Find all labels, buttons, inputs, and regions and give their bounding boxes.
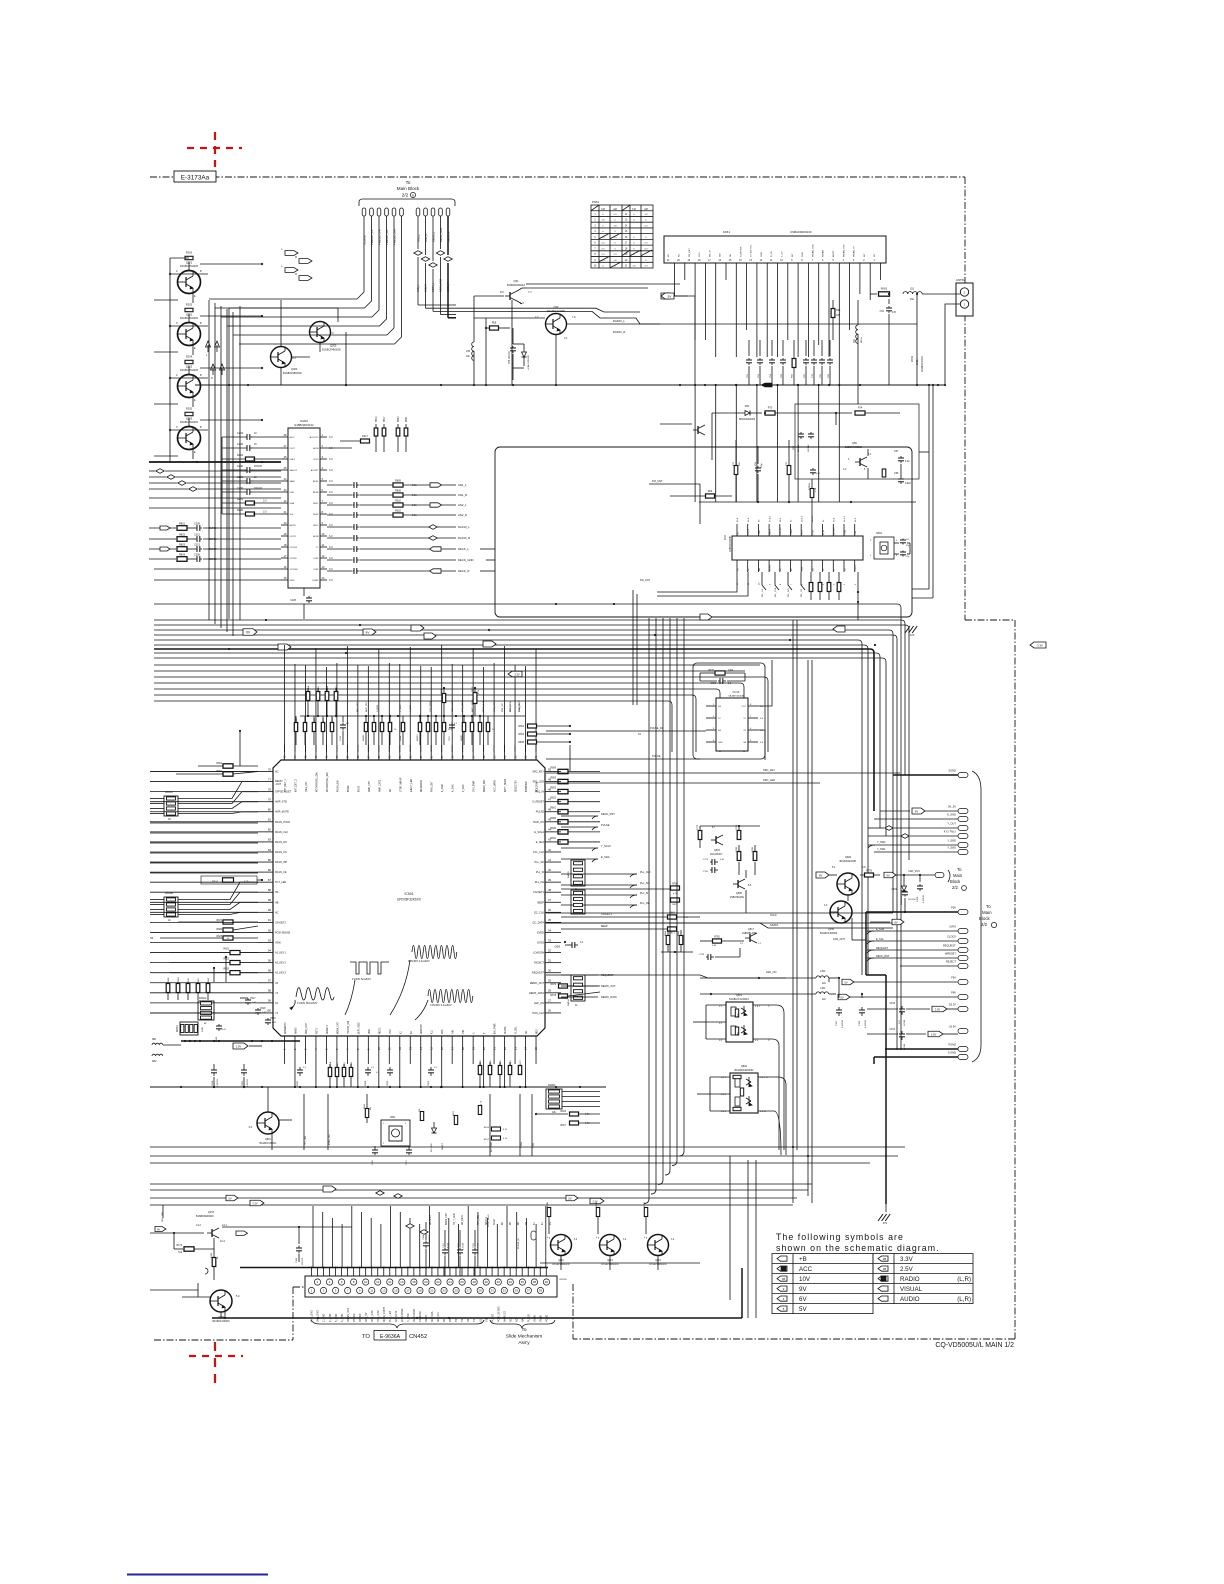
svg-text:36: 36 bbox=[521, 1280, 525, 1284]
svg-text:X4b: X4b bbox=[453, 1029, 455, 1034]
svg-text:R803: R803 bbox=[179, 543, 186, 546]
svg-text:DET5_4.7k: DET5_4.7k bbox=[483, 700, 485, 712]
svg-text:NC: NC bbox=[864, 253, 866, 257]
svg-text:78: 78 bbox=[268, 787, 272, 791]
svg-text:FRQ_CNT: FRQ_CNT bbox=[306, 1023, 308, 1034]
wire vertical bundle to CN452 bbox=[312, 1206, 314, 1268]
svg-text:AMP_STB: AMP_STB bbox=[275, 801, 287, 804]
CN452 pin 2 bbox=[314, 1279, 320, 1285]
wire sgnd bbox=[893, 774, 958, 776]
wires an2/deck group bbox=[417, 216, 419, 249]
svg-text:OUTLR: OUTLR bbox=[290, 547, 298, 549]
svg-text:3.3: 3.3 bbox=[263, 500, 267, 503]
connector pin bbox=[439, 208, 443, 216]
wire signal row bbox=[327, 548, 352, 550]
svg-text:PLL_CLK: PLL_CLK bbox=[533, 851, 544, 854]
capacitor C148 bbox=[425, 1241, 427, 1244]
IC202 pin 14 bbox=[320, 579, 327, 581]
capacitor C157 bbox=[838, 978, 840, 998]
svg-text:DO: DO bbox=[812, 568, 814, 571]
IC501 pin 30 REQUEST bbox=[545, 972, 561, 974]
svg-text:To: To bbox=[957, 867, 962, 872]
IC501 pin 76 NC bbox=[258, 771, 273, 773]
svg-text:3.3: 3.3 bbox=[263, 511, 267, 514]
svg-text:C517: C517 bbox=[250, 998, 256, 1000]
capacitor bbox=[353, 548, 355, 550]
svg-text:81: 81 bbox=[268, 818, 272, 822]
svg-text:CQ-VD5005U/L MAIN 1/2: CQ-VD5005U/L MAIN 1/2 bbox=[935, 1342, 1014, 1349]
resistor R69 bbox=[706, 494, 715, 498]
capacitor C159 bbox=[904, 911, 906, 913]
svg-text:R50B: R50B bbox=[327, 685, 329, 691]
capacitor C805 bbox=[389, 1067, 391, 1070]
svg-text:9.1k: 9.1k bbox=[412, 494, 417, 497]
svg-text:R853: R853 bbox=[551, 778, 557, 780]
IC51 pin top 16 bbox=[768, 524, 770, 536]
svg-text:FM_IF: FM_IF bbox=[748, 528, 750, 535]
IC710 pin left 1 bbox=[706, 705, 716, 707]
svg-text:16V100: 16V100 bbox=[254, 488, 263, 490]
svg-text:SDA: SDA bbox=[290, 502, 295, 505]
svg-text:SE1R: SE1R bbox=[313, 536, 319, 538]
svg-text:C: C bbox=[176, 270, 178, 273]
svg-text:8V: 8V bbox=[366, 630, 370, 634]
svg-text:R679: R679 bbox=[551, 984, 557, 986]
IC202 pin 23 bbox=[281, 491, 288, 493]
IC501 pin 18 bbox=[462, 1036, 464, 1052]
svg-text:RES: RES bbox=[537, 1029, 539, 1034]
svg-text:R86B: R86B bbox=[351, 1061, 353, 1067]
svg-text:13: 13 bbox=[382, 1289, 386, 1293]
svg-text:PULSE: PULSE bbox=[527, 1313, 530, 1322]
svg-text:VDD: VDD bbox=[759, 530, 761, 535]
svg-text:RA812: RA812 bbox=[199, 997, 207, 1000]
wire deck rows into block bbox=[480, 548, 495, 550]
svg-text:DHD: DHD bbox=[916, 359, 919, 365]
arrow tag D-3V bbox=[233, 1043, 248, 1049]
svg-text:L152: L152 bbox=[820, 970, 826, 973]
svg-text:3B: 3B bbox=[782, 1277, 786, 1281]
svg-text:83: 83 bbox=[268, 838, 272, 842]
svg-text:R809: R809 bbox=[395, 490, 401, 493]
registration cross bottom bbox=[189, 1342, 243, 1385]
connector stub PGND bbox=[958, 1047, 968, 1052]
svg-text:HOLDSW: HOLDSW bbox=[537, 781, 539, 792]
resistor R878 4.7k bbox=[478, 1106, 481, 1115]
svg-text:C801: C801 bbox=[242, 1080, 244, 1086]
IC51 pin top 21 bbox=[822, 524, 824, 536]
svg-text:5V: 5V bbox=[844, 980, 847, 984]
resistors R631 R632 R633 bbox=[230, 951, 240, 955]
wire bbox=[170, 325, 208, 327]
IC501 pin 16 bbox=[441, 1036, 443, 1052]
svg-text:470: 470 bbox=[738, 1014, 740, 1017]
svg-text:NC: NC bbox=[874, 253, 876, 257]
transistor Q55 small bbox=[693, 429, 698, 431]
svg-text:DECK_RST: DECK_RST bbox=[876, 955, 890, 958]
resistor R625 bbox=[223, 936, 233, 940]
capacitor C518 bbox=[257, 1008, 259, 1010]
svg-text:AN2_R: AN2_R bbox=[458, 513, 467, 517]
connector stub U2.5V bbox=[958, 1029, 968, 1034]
svg-text:PUSH_SW: PUSH_SW bbox=[337, 780, 339, 792]
capacitor C313 bbox=[187, 548, 196, 550]
svg-text:35: 35 bbox=[515, 1289, 519, 1293]
svg-text:C66: C66 bbox=[894, 472, 899, 475]
svg-text:9V: 9V bbox=[157, 1228, 160, 1231]
svg-text:Y_SW2: Y_SW2 bbox=[877, 841, 886, 844]
svg-text:41: 41 bbox=[548, 858, 552, 862]
svg-text:C57: C57 bbox=[894, 450, 899, 453]
IC202 pin 22 bbox=[281, 502, 288, 504]
svg-text:SE1L: SE1L bbox=[313, 525, 319, 527]
IC202 pin 5 bbox=[320, 480, 327, 482]
svg-text:9V: 9V bbox=[886, 873, 889, 877]
svg-text:86: 86 bbox=[268, 868, 272, 872]
svg-text:NC: NC bbox=[526, 1030, 528, 1034]
capacitor C8x bbox=[902, 539, 904, 541]
vertical column wires above IC501 bbox=[284, 645, 286, 752]
connector stub CLOCK bbox=[958, 939, 968, 944]
svg-text:UPD78F32K6XX: UPD78F32K6XX bbox=[397, 898, 422, 902]
schematic border top dash-dot bbox=[150, 176, 965, 178]
svg-text:Q56: Q56 bbox=[852, 442, 857, 445]
svg-text:94: 94 bbox=[268, 948, 272, 952]
capacitor C750 bbox=[710, 869, 712, 871]
svg-text:A_IN: A_IN bbox=[822, 529, 825, 534]
IC501 pin 98 Y3 bbox=[258, 992, 273, 994]
svg-text:21: 21 bbox=[430, 1289, 434, 1293]
resistor R75 bbox=[810, 489, 814, 498]
svg-text:GN2: GN2 bbox=[718, 742, 723, 744]
svg-text:2SB6760AML: 2SB6760AML bbox=[730, 896, 745, 899]
svg-text:Y-: Y- bbox=[768, 1006, 770, 1008]
svg-text:C312: C312 bbox=[194, 534, 200, 537]
svg-text:E_SDA: E_SDA bbox=[536, 841, 545, 844]
svg-text:32: 32 bbox=[497, 1280, 501, 1284]
arrow small bbox=[236, 1231, 248, 1235]
resistor R206 bbox=[185, 412, 193, 415]
resistor R781 bbox=[753, 852, 757, 861]
svg-text:R50P: R50P bbox=[305, 717, 307, 723]
resistor R977 bbox=[518, 1066, 521, 1075]
IC501 pin 27 LED_ON bbox=[545, 1002, 561, 1004]
svg-text:REJECT: REJECT bbox=[534, 962, 544, 965]
svg-text:PLL_CLK: PLL_CLK bbox=[775, 587, 777, 597]
IC501 pin 5 bbox=[325, 1036, 327, 1052]
wire signal row bbox=[327, 570, 352, 572]
svg-text:DIFF: DIFF bbox=[314, 558, 320, 560]
svg-text:R780: R780 bbox=[736, 846, 738, 852]
svg-text:16: 16 bbox=[400, 1280, 404, 1284]
svg-text:98: 98 bbox=[268, 989, 272, 993]
ground under legend bbox=[878, 1214, 883, 1221]
CN452 pin 17 bbox=[405, 1287, 411, 1293]
resistor R776 bbox=[737, 831, 741, 840]
IC501 pin 25 bbox=[535, 1036, 537, 1052]
svg-text:NC: NC bbox=[275, 771, 279, 774]
svg-text:Ass'y: Ass'y bbox=[518, 1340, 530, 1346]
IC51 pin bottom 1 bbox=[854, 560, 856, 572]
connector pin bbox=[362, 208, 366, 216]
svg-text:3B: 3B bbox=[883, 1257, 887, 1261]
wire ic710 out bbox=[758, 660, 772, 706]
resistor R508 bbox=[401, 723, 404, 732]
resistor R230 bbox=[222, 513, 245, 515]
IC501 pin 83 FRAN_DO bbox=[258, 841, 273, 843]
inductor L52 bbox=[856, 325, 858, 343]
svg-text:6V: 6V bbox=[799, 1296, 807, 1303]
svg-text:100k: 100k bbox=[728, 669, 734, 672]
arrow tag 9V radio bbox=[661, 293, 674, 299]
transistor Q155 bbox=[830, 901, 852, 923]
svg-text:K_GND: K_GND bbox=[947, 813, 956, 817]
CN452 pin 22 bbox=[435, 1279, 441, 1285]
svg-text:SELECT5V: SELECT5V bbox=[516, 780, 518, 792]
svg-text:R74: R74 bbox=[858, 407, 863, 410]
svg-text:AN1_R: AN1_R bbox=[458, 493, 467, 497]
svg-text:RA507: RA507 bbox=[460, 734, 463, 741]
svg-text:DECK_GND: DECK_GND bbox=[440, 278, 443, 292]
resistor R775 bbox=[698, 831, 702, 840]
svg-text:R180: R180 bbox=[211, 1252, 213, 1258]
svg-text:(L,R): (L,R) bbox=[957, 1276, 971, 1283]
svg-text:SCLK: SCLK bbox=[770, 913, 777, 917]
resistor R70 bbox=[787, 466, 791, 475]
svg-text:LED_ON: LED_ON bbox=[534, 1002, 544, 1005]
svg-text:C51: C51 bbox=[880, 310, 885, 313]
svg-text:To: To bbox=[406, 180, 411, 185]
svg-text:INIT_DET_1: INIT_DET_1 bbox=[285, 779, 287, 792]
connector CN452 box bbox=[305, 1276, 557, 1297]
svg-text:B1GB1CFJLN0013: B1GB1CFJLN0013 bbox=[729, 999, 749, 1001]
CN452 pin 10 bbox=[363, 1279, 369, 1285]
svg-text:38: 38 bbox=[533, 1280, 537, 1284]
svg-text:C56 16V100: C56 16V100 bbox=[509, 351, 511, 364]
CN452 pin 5 bbox=[333, 1287, 339, 1293]
svg-text:91: 91 bbox=[268, 918, 272, 922]
svg-text:H819: H819 bbox=[376, 416, 378, 422]
svg-text:PN51: PN51 bbox=[592, 200, 599, 204]
svg-text:33: 33 bbox=[503, 1289, 507, 1293]
svg-text:SDATA: SDATA bbox=[770, 923, 779, 927]
svg-text:Main: Main bbox=[982, 910, 992, 915]
IC501 pin 17 bbox=[451, 1036, 453, 1052]
svg-text:A73: A73 bbox=[910, 633, 915, 637]
svg-text:Q306: Q306 bbox=[845, 856, 852, 859]
svg-text:9V: 9V bbox=[915, 809, 919, 813]
wire bbox=[192, 397, 194, 407]
svg-text:R50G: R50G bbox=[336, 685, 338, 691]
IC501 pin 65 bbox=[388, 745, 390, 760]
IC710 pin right 8 bbox=[748, 705, 758, 707]
svg-text:9V: 9V bbox=[668, 294, 672, 298]
IC501 pin 89 HB bbox=[258, 901, 273, 903]
svg-text:Y4b: Y4b bbox=[463, 1029, 465, 1034]
wire signal row bbox=[327, 526, 352, 528]
IC202 pin 15 bbox=[281, 579, 288, 581]
svg-text:REGC: REGC bbox=[379, 1027, 381, 1034]
IC501 pin 47 D_RESET bbox=[545, 801, 561, 803]
IC501 pin 21 bbox=[493, 1036, 495, 1052]
svg-text:10-4: 10-4 bbox=[220, 1240, 225, 1243]
capacitor C64 bbox=[800, 432, 802, 434]
svg-text:VGA: VGA bbox=[843, 530, 846, 535]
svg-text:37: 37 bbox=[527, 1289, 531, 1293]
svg-text:3HP1/0: 3HP1/0 bbox=[359, 1313, 362, 1322]
wire bbox=[229, 307, 338, 309]
svg-text:REMO_OUT: REMO_OUT bbox=[530, 982, 545, 985]
ground A73 bbox=[857, 572, 859, 620]
svg-text:#74: #74 bbox=[883, 1222, 888, 1225]
svg-text:9.1k: 9.1k bbox=[412, 514, 417, 517]
wires preout group bbox=[209, 216, 364, 299]
wire bbox=[303, 604, 305, 619]
svg-text:Q801: Q801 bbox=[265, 1138, 272, 1141]
svg-text:35: 35 bbox=[548, 918, 552, 922]
svg-text:/OUT: /OUT bbox=[290, 448, 296, 450]
svg-text:PLL_CE: PLL_CE bbox=[535, 881, 545, 884]
svg-text:96: 96 bbox=[268, 969, 272, 973]
svg-text:ACC_SENS: ACC_SENS bbox=[461, 700, 464, 712]
IC501 pin 39 PLL_CE bbox=[545, 881, 561, 883]
capacitor bbox=[353, 570, 355, 572]
svg-text:B6A00A000005: B6A00A000005 bbox=[739, 418, 756, 421]
transistor Q517 bbox=[745, 937, 750, 939]
IC501 pin 34 EVDD bbox=[545, 931, 561, 933]
svg-text:0.22: 0.22 bbox=[905, 461, 910, 463]
IC501 pin 8 bbox=[357, 1036, 359, 1052]
svg-text:NC: NC bbox=[679, 253, 681, 257]
wire deck drop columns bbox=[632, 590, 634, 705]
svg-text:RADIO: RADIO bbox=[900, 1276, 920, 1283]
wire antenna pin1 bbox=[945, 304, 960, 385]
IC501 pin 54 bbox=[504, 745, 506, 760]
svg-text:100: 100 bbox=[266, 1009, 271, 1013]
wire bold left-bottom rail bbox=[181, 1040, 300, 1042]
svg-text:RA509: RA509 bbox=[362, 734, 365, 741]
IC51 pin top 22 bbox=[832, 524, 834, 536]
resistor R71 bbox=[734, 466, 738, 475]
IC51 pin top 13 bbox=[736, 524, 738, 536]
svg-text:24-2.5: 24-2.5 bbox=[844, 515, 846, 522]
svg-text:R680: R680 bbox=[217, 929, 223, 931]
svg-text:D51: D51 bbox=[745, 405, 750, 408]
CN452 pin 3 bbox=[320, 1287, 326, 1293]
svg-text:SYS_3.3V: SYS_3.3V bbox=[377, 1310, 380, 1322]
svg-text:29: 29 bbox=[548, 979, 552, 983]
svg-text:SB2: SB2 bbox=[152, 1061, 157, 1063]
arrow tag band B bbox=[1030, 642, 1046, 648]
svg-text:1K: 1K bbox=[168, 818, 171, 821]
svg-text:90: 90 bbox=[268, 908, 272, 912]
resistor array RA509 bbox=[364, 723, 367, 732]
connector bracket bbox=[359, 199, 455, 206]
CN452 pin 16 bbox=[399, 1279, 405, 1285]
svg-text:29: 29 bbox=[479, 1289, 483, 1293]
wire signal row bbox=[327, 504, 352, 506]
connector pin bbox=[385, 208, 389, 216]
IC51 pin top 24 bbox=[854, 524, 856, 536]
svg-text:ST_EG/TYC: ST_EG/TYC bbox=[751, 244, 753, 257]
IC202 pin 28 bbox=[281, 436, 288, 438]
svg-text:SYS_MUTE: SYS_MUTE bbox=[519, 700, 521, 712]
svg-text:A3_KEY3: A3_KEY3 bbox=[275, 972, 286, 975]
svg-text:R801: R801 bbox=[179, 522, 186, 525]
svg-text:0.9V/DIV 0.2us/DIV: 0.9V/DIV 0.2us/DIV bbox=[408, 960, 430, 963]
svg-text:MON2: MON2 bbox=[770, 564, 772, 571]
IC501 pin 80 AMP_MUTE bbox=[258, 811, 273, 813]
diode D807 bbox=[433, 1122, 435, 1128]
resistor R231 bbox=[222, 502, 245, 504]
svg-text:E_SOLA: E_SOLA bbox=[534, 831, 544, 834]
svg-text:AMP_CNT: AMP_CNT bbox=[365, 701, 368, 712]
capacitor C240 bbox=[222, 469, 245, 471]
capacitor bbox=[353, 526, 355, 528]
svg-text:R633: R633 bbox=[224, 969, 230, 971]
svg-text:Q515: Q515 bbox=[714, 849, 721, 852]
wire signal row bbox=[327, 537, 352, 539]
svg-text:POSI_SENS: POSI_SENS bbox=[488, 1214, 490, 1227]
svg-text:R66Z: R66Z bbox=[208, 977, 210, 983]
transistor Q505 bbox=[733, 883, 738, 885]
svg-text:NA: NA bbox=[521, 1318, 524, 1322]
svg-text:VDD: VDD bbox=[369, 1029, 371, 1034]
svg-text:C809: C809 bbox=[555, 947, 561, 949]
CN452 pin 25 bbox=[453, 1287, 459, 1293]
arrow tag 8V bbox=[675, 295, 689, 297]
connector stub REJECT bbox=[958, 964, 968, 969]
svg-text:R50T: R50T bbox=[323, 717, 325, 723]
resistors R670 R680 bbox=[223, 920, 233, 924]
svg-text:10V100: 10V100 bbox=[808, 444, 810, 452]
svg-text:28: 28 bbox=[548, 989, 552, 993]
svg-text:7.6: 7.6 bbox=[572, 316, 576, 319]
svg-text:3R: 3R bbox=[449, 1319, 452, 1322]
arrow tag D3.3V bbox=[932, 1006, 947, 1012]
svg-text:EVSS: EVSS bbox=[537, 942, 544, 945]
svg-text:3HP1/0: 3HP1/0 bbox=[353, 1313, 356, 1322]
svg-text:PRA_SCK: PRA_SCK bbox=[493, 701, 496, 712]
IC501 pin 45 MVR_OC bbox=[545, 821, 561, 823]
svg-text:3.3V: 3.3V bbox=[514, 672, 520, 676]
IC501 pin 61 bbox=[430, 745, 432, 760]
svg-text:NC: NC bbox=[509, 1318, 512, 1322]
svg-text:FA51: FA51 bbox=[723, 230, 730, 234]
svg-text:AMP_CNT: AMP_CNT bbox=[368, 780, 371, 792]
IC51 pin top 23 bbox=[843, 524, 845, 536]
connector pin bbox=[392, 208, 396, 216]
svg-text:KY1-TNLY: KY1-TNLY bbox=[944, 830, 956, 834]
svg-text:R232: R232 bbox=[237, 454, 244, 457]
resistor R780 bbox=[737, 852, 741, 861]
svg-text:5 8-7: 5 8-7 bbox=[755, 1006, 761, 1008]
svg-text:TOUCH_SW: TOUCH_SW bbox=[348, 1020, 350, 1034]
resistor R217 bbox=[361, 439, 370, 443]
waveform sketch 4 bbox=[428, 989, 473, 1003]
svg-text:C157: C157 bbox=[836, 1020, 838, 1026]
connector stub Y_SW2 bbox=[958, 843, 968, 848]
wire bottom right transistor rail bbox=[540, 1262, 700, 1264]
svg-text:BM: BM bbox=[759, 568, 761, 571]
IC202 pin 8 bbox=[320, 513, 327, 515]
svg-text:IC51: IC51 bbox=[724, 534, 727, 540]
capacitor C309 bbox=[187, 527, 196, 529]
svg-text:SPS_3.3V: SPS_3.3V bbox=[371, 1310, 374, 1322]
IC501 pin 90 NC bbox=[258, 911, 273, 913]
resistor R684 bbox=[668, 915, 677, 919]
svg-text:/SD: /SD bbox=[720, 253, 722, 257]
